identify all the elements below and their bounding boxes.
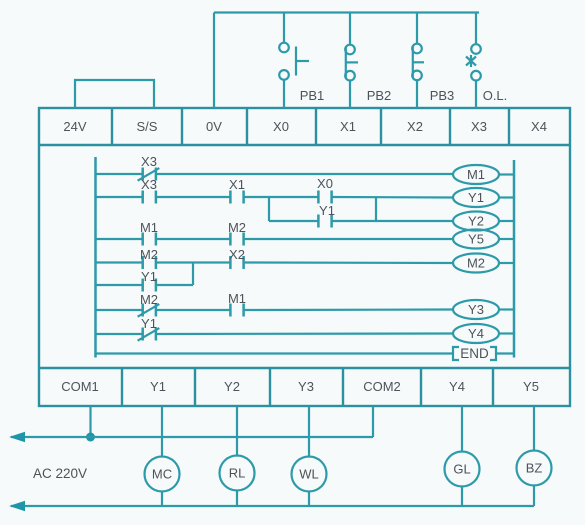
AC bus wire L1 — [11, 436, 373, 438]
PLC outer box — [39, 108, 570, 406]
wire: branch up to rung 4 — [192, 263, 194, 286]
pushbutton PB2 (NC) — [345, 45, 358, 81]
buzzer BZ — [517, 451, 552, 486]
svg-text:M2: M2 — [140, 292, 158, 307]
svg-text:X3: X3 — [141, 177, 157, 192]
svg-text:O.L.: O.L. — [483, 88, 508, 103]
wire: Y1 terminal to MC — [161, 406, 163, 457]
wire: coil Y5 to right rail — [499, 238, 514, 240]
terminal Y1 — [150, 368, 195, 406]
terminal X1 — [340, 108, 381, 145]
rung 6 wire — [96, 332, 454, 335]
terminal X3 — [471, 108, 509, 145]
svg-text:24V: 24V — [63, 119, 86, 134]
svg-text:PB2: PB2 — [367, 88, 392, 103]
lamp RL — [220, 456, 255, 491]
wire: PB1 to X0 — [283, 80, 285, 108]
contact X1 (NO) rung 2 — [229, 177, 245, 204]
wire: coil M1 to right rail — [499, 173, 514, 175]
ladder left rail — [94, 157, 97, 358]
arrowhead L2 — [9, 501, 25, 511]
svg-text:END: END — [460, 346, 489, 361]
svg-text:Y4: Y4 — [468, 326, 484, 341]
svg-text:Y1: Y1 — [319, 203, 335, 218]
svg-text:M1: M1 — [228, 291, 246, 306]
contact Y1 (NO) seal-in branch — [318, 203, 335, 228]
wire: Y2 terminal to RL — [236, 406, 238, 456]
contact M2 (NO) rung 3 — [228, 220, 246, 246]
END instruction — [453, 346, 496, 361]
svg-text:X4: X4 — [531, 119, 547, 134]
rung 2 wire — [96, 196, 454, 199]
contact Y1 (NO) branch rung 4 — [141, 269, 157, 292]
wire: MC to bus L2 — [161, 492, 163, 507]
svg-text:Y2: Y2 — [224, 379, 240, 394]
wire: top bus to PB1 — [283, 13, 285, 44]
svg-text:X3: X3 — [141, 154, 157, 169]
wire: top bus to PB2 — [349, 13, 351, 46]
svg-text:COM2: COM2 — [363, 379, 401, 394]
wire: END to right rail — [497, 352, 514, 354]
svg-text:M2: M2 — [228, 220, 246, 235]
rung 5 wire — [96, 308, 454, 311]
coil Y3 — [453, 300, 499, 319]
contact M1 (NO) rung 3 — [140, 220, 158, 246]
terminal Y4 — [449, 368, 493, 406]
terminal X4 — [531, 119, 547, 134]
wire: COM2 down — [372, 406, 374, 437]
coil Y2 — [453, 212, 499, 231]
wire: coil Y1 to right rail — [499, 196, 514, 198]
pushbutton PB3 (NC) — [412, 44, 424, 80]
wire: top bus to 0V — [213, 13, 215, 109]
contactor coil MC — [145, 457, 180, 492]
contact X3 (NC) rung 1 — [138, 154, 160, 181]
wire: coil Y4 to right rail — [499, 332, 514, 334]
terminal COM1 — [61, 368, 122, 406]
svg-text:X1: X1 — [340, 119, 356, 134]
label O.L. — [483, 88, 508, 103]
svg-text:M1: M1 — [467, 167, 485, 182]
svg-text:COM1: COM1 — [61, 379, 99, 394]
contact X3 (NO) rung 2 — [141, 177, 157, 204]
svg-text:PB1: PB1 — [300, 88, 325, 103]
contact M1 (NO) rung 5 — [228, 291, 246, 317]
wire: Y1 parallel branch rung 4 — [96, 284, 194, 286]
wire: top bus to PB3 — [416, 13, 418, 45]
svg-text:Y4: Y4 — [449, 379, 465, 394]
contact M2 (NO) rung 4 — [140, 247, 158, 269]
terminal X2 — [407, 108, 450, 145]
contact M2 (NC) rung 5 — [138, 292, 160, 317]
svg-text:BZ: BZ — [526, 461, 543, 476]
top bus wire — [214, 11, 479, 13]
contact Y1 (NC) rung 6 — [138, 316, 160, 341]
coil M2 — [453, 254, 499, 273]
rung 4 wire — [96, 261, 454, 264]
svg-text:X0: X0 — [273, 119, 289, 134]
svg-text:MC: MC — [152, 467, 172, 482]
terminal S/S — [137, 108, 182, 145]
svg-text:AC 220V: AC 220V — [33, 466, 87, 481]
svg-text:M2: M2 — [140, 247, 158, 262]
coil M1 — [453, 165, 499, 184]
terminal 0V — [206, 108, 247, 145]
rung 3 wire — [96, 238, 454, 240]
svg-text:Y5: Y5 — [468, 232, 484, 247]
rung 7 wire (END rung) — [96, 352, 453, 354]
lamp WL — [292, 457, 327, 492]
AC bus wire L2 — [11, 505, 534, 507]
wire: GL to bus L2 — [461, 487, 463, 507]
svg-text:X3: X3 — [471, 119, 487, 134]
wire: Y3 terminal to WL — [308, 406, 310, 457]
wire: COM1 down — [89, 406, 91, 437]
svg-text:RL: RL — [229, 466, 246, 481]
wire: O.L. to X3 — [475, 81, 477, 109]
svg-text:0V: 0V — [206, 119, 222, 134]
svg-text:X1: X1 — [229, 177, 245, 192]
lamp GL — [445, 452, 480, 487]
wire: Y5 terminal to BZ — [533, 406, 535, 451]
svg-text:M2: M2 — [467, 256, 485, 271]
contact X2 (NO) rung 4 — [229, 247, 245, 269]
wire: WL to bus L2 — [308, 492, 310, 507]
terminal Y2 — [224, 368, 270, 406]
top terminal row bottom border — [39, 144, 570, 146]
pushbutton PB1 (NO) — [279, 43, 309, 80]
terminal COM2 — [363, 368, 421, 406]
svg-text:Y1: Y1 — [150, 379, 166, 394]
svg-text:Y3: Y3 — [468, 302, 484, 317]
terminal Y3 — [298, 368, 343, 406]
coil Y1 — [453, 188, 499, 207]
arrowhead L1 — [9, 432, 25, 442]
wire: coil M2 to right rail — [499, 262, 514, 264]
wire: Y1 parallel branch — [269, 220, 453, 222]
label AC 220V — [33, 466, 87, 481]
rung 1 wire — [96, 173, 454, 175]
label PB2 — [367, 88, 392, 103]
svg-text:X0: X0 — [317, 176, 333, 191]
wire: top bus to O.L. — [475, 13, 477, 45]
label PB1 — [300, 88, 325, 103]
wire: Y4 terminal to GL — [461, 406, 463, 452]
svg-text:Y1: Y1 — [141, 269, 157, 284]
coil Y4 — [453, 324, 499, 343]
svg-text:Y1: Y1 — [141, 316, 157, 331]
terminal X0 — [273, 108, 316, 145]
svg-text:S/S: S/S — [137, 119, 158, 134]
svg-text:Y3: Y3 — [298, 379, 314, 394]
svg-text:X2: X2 — [407, 119, 423, 134]
svg-text:WL: WL — [299, 467, 319, 482]
svg-text:GL: GL — [453, 462, 470, 477]
svg-text:M1: M1 — [140, 220, 158, 235]
label PB3 — [430, 88, 455, 103]
contact X0 (NO) rung 2 — [317, 176, 333, 204]
wire: branch down before X0 — [268, 197, 270, 221]
wire: coil Y3 to right rail — [499, 308, 514, 310]
overload contact O.L. — [466, 44, 481, 80]
junction dot COM1 — [86, 433, 95, 442]
jumper wire 24V to S/S — [75, 80, 154, 108]
svg-text:Y2: Y2 — [468, 214, 484, 229]
terminal 24V — [63, 108, 112, 145]
wire: branch up after X0 — [375, 197, 377, 221]
svg-text:PB3: PB3 — [430, 88, 455, 103]
bottom terminal row top border — [39, 367, 570, 369]
coil Y5 — [453, 230, 499, 249]
wire: BZ to bus L2 — [533, 486, 535, 507]
terminal Y5 — [523, 379, 539, 394]
wire: RL to bus L2 — [236, 491, 238, 507]
svg-text:Y1: Y1 — [468, 190, 484, 205]
wire: PB2 to X1 — [349, 81, 351, 109]
ladder right rail — [513, 160, 516, 358]
svg-text:X2: X2 — [229, 247, 245, 262]
wire: coil Y2 to right rail — [499, 220, 514, 222]
svg-text:Y5: Y5 — [523, 379, 539, 394]
wire: PB3 to X2 — [416, 80, 418, 108]
